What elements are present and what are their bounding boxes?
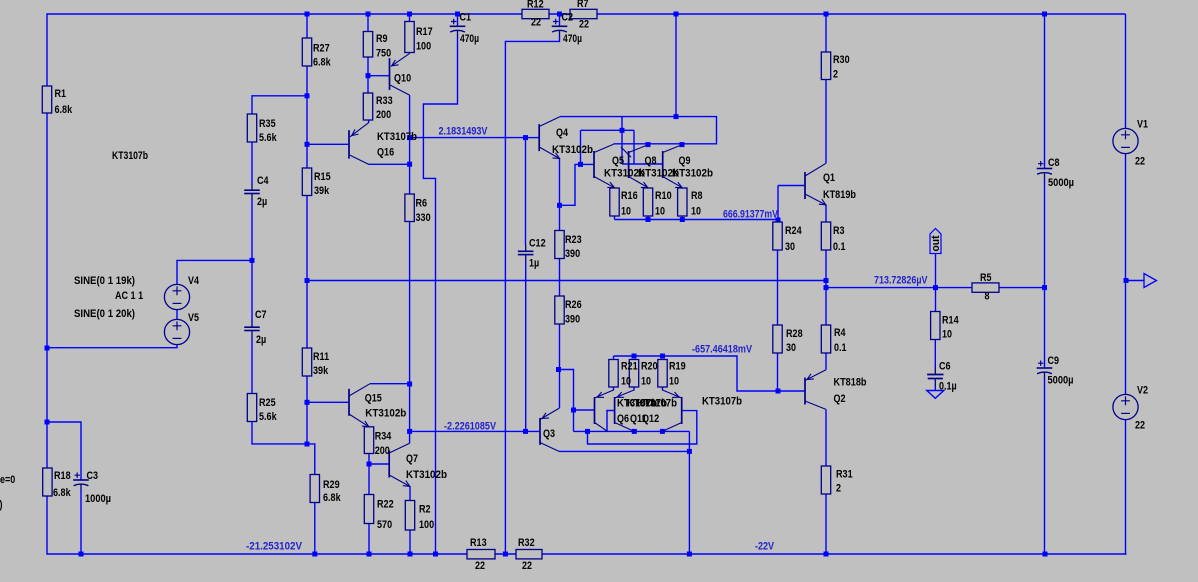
svg-text:Q2: Q2	[834, 393, 846, 405]
transistor Q6 pnp	[595, 390, 614, 431]
resistor R20 10	[629, 360, 638, 388]
capacitor C4 2u	[244, 184, 260, 201]
svg-text:5000µ: 5000µ	[1048, 177, 1074, 189]
wire Q8-Q9 base wire	[622, 163, 662, 165]
node Q3 collector rail	[687, 449, 692, 454]
svg-text:22: 22	[531, 17, 541, 29]
transistor Q3 pnp	[540, 408, 560, 451]
wire Q3 collector rail	[559, 450, 689, 452]
node R19 top	[660, 354, 665, 359]
node V1-V2 mid	[1124, 278, 1129, 283]
wire Q10 collector column	[409, 95, 411, 194]
svg-text:R4: R4	[834, 327, 846, 339]
wire R25 bottom jog to R29	[252, 422, 315, 475]
svg-text:6.8k: 6.8k	[323, 492, 341, 504]
svg-text:KT3107b: KT3107b	[377, 131, 417, 143]
wire node to C7	[251, 260, 253, 321]
node R27-R35	[305, 93, 310, 98]
wire base node to lower rail	[573, 410, 575, 431]
ground	[927, 391, 944, 399]
wire R35 top wire	[252, 96, 307, 114]
resistor R32 22	[516, 550, 542, 559]
capacitor C9 5000u	[1037, 361, 1053, 379]
transistor Q1 npn	[805, 163, 826, 205]
wire Q1 base vertical	[777, 186, 779, 223]
svg-text:C3: C3	[87, 470, 99, 482]
resistor R3 0.1	[821, 222, 830, 250]
wire Q15 collector wire	[370, 383, 410, 385]
node bottom rail / C9	[1043, 552, 1048, 557]
svg-text:Q9: Q9	[679, 155, 691, 167]
transistor Q16 pnp	[349, 123, 369, 165]
svg-text:R11: R11	[313, 351, 329, 363]
node R20 top	[632, 354, 637, 359]
wire cluster to bottom rail	[688, 451, 690, 554]
wire V2 bottom lead	[1125, 420, 1127, 555]
node top rail / R27	[305, 12, 310, 17]
resistor R7 22	[570, 9, 597, 18]
wire R5 to C9 column	[999, 287, 1045, 289]
wire bottom rail right	[542, 553, 1127, 555]
resistor R17 100	[405, 22, 414, 53]
svg-text:KT3102b: KT3102b	[672, 168, 713, 180]
wire R21 top lead	[613, 356, 615, 360]
wire R20 bottom lead	[633, 387, 635, 391]
wire C4 to node	[251, 200, 253, 261]
svg-text:8: 8	[985, 291, 990, 303]
resistor R8 10	[678, 188, 687, 216]
svg-text:KT3107b: KT3107b	[702, 396, 742, 408]
svg-text:30: 30	[785, 241, 795, 253]
wire top supply rail right	[597, 13, 1126, 15]
wire Q2 emitter lead	[825, 353, 827, 370]
transistor Q10 pnp	[390, 53, 411, 95]
node Q12 collector	[660, 429, 665, 434]
voltage source V1 22	[1113, 128, 1138, 153]
svg-text:R22: R22	[377, 499, 394, 511]
svg-text:V4: V4	[188, 275, 200, 287]
svg-text:R6: R6	[416, 198, 428, 210]
node rail tap	[674, 114, 679, 119]
node C12 top	[523, 135, 528, 140]
resistor R10 10	[643, 188, 652, 216]
svg-text:KT819b: KT819b	[823, 189, 856, 201]
wire Q1 emitter to R3	[825, 205, 827, 223]
svg-text:-657.46418mV: -657.46418mV	[692, 344, 753, 356]
svg-text:6.8k: 6.8k	[313, 57, 331, 69]
resistor R14 10	[931, 312, 940, 340]
svg-text:Q7: Q7	[406, 453, 418, 465]
transistor Q11 pnp	[615, 390, 635, 431]
svg-text:Q5: Q5	[612, 155, 624, 167]
svg-text:V1: V1	[1137, 119, 1148, 131]
wire R33 bottom lead	[368, 121, 370, 123]
node Q15 base	[305, 400, 310, 405]
node top rail / C8	[1042, 12, 1047, 17]
svg-text:Q1: Q1	[823, 172, 835, 184]
wire C3 branch	[47, 422, 81, 480]
svg-text:0.1: 0.1	[833, 241, 846, 253]
svg-text:R8: R8	[691, 190, 703, 202]
node top rail / C1	[455, 12, 460, 17]
wire R8 bottom lead	[681, 216, 683, 220]
svg-text:22: 22	[475, 560, 485, 572]
wire C1 top lead	[457, 14, 459, 26]
wire C8 to output node	[1044, 179, 1046, 288]
svg-text:R13: R13	[470, 537, 487, 549]
svg-text:R23: R23	[565, 234, 582, 246]
wire C8 top lead	[1044, 14, 1046, 168]
transistor Q15 npn	[349, 384, 370, 427]
node Q5 base stub	[578, 162, 583, 167]
node Q16 base	[305, 142, 310, 147]
svg-text:1µ: 1µ	[529, 258, 539, 270]
wire Q4 base wire	[526, 137, 540, 139]
resistor R23 390	[555, 231, 564, 259]
svg-text:Q15: Q15	[365, 393, 382, 405]
wire V5 bottom to left column	[47, 344, 177, 348]
svg-text:R10: R10	[655, 190, 672, 202]
svg-text:10: 10	[655, 206, 665, 218]
transistor Q9 npn	[663, 145, 683, 188]
svg-text:39k: 39k	[314, 185, 330, 197]
svg-text:39k: 39k	[313, 365, 329, 377]
node bottom rail / cluster	[687, 552, 692, 557]
svg-text:6.8k: 6.8k	[55, 104, 73, 116]
svg-text:R14: R14	[942, 315, 959, 327]
svg-text:R2: R2	[419, 504, 431, 516]
resistor R34 200	[364, 427, 373, 454]
wire Q12 base loop	[588, 411, 697, 444]
wire left column R18 to bottom rail	[46, 496, 48, 555]
wire R23 top lead	[559, 205, 561, 230]
svg-text:200: 200	[376, 109, 391, 121]
resistor R16 10	[610, 188, 619, 216]
wire R3 to output rail	[825, 250, 827, 281]
wire Q3 emitter vertical	[559, 370, 561, 409]
wire left column R1 upper lead	[46, 13, 48, 86]
voltage source V2 22	[1113, 394, 1138, 419]
resistor R15 39k	[302, 168, 311, 196]
node Q10 base	[366, 73, 371, 78]
node C4-V4 node	[250, 258, 255, 263]
resistor R4 0.1	[821, 325, 830, 353]
wire R16 bottom lead	[614, 216, 616, 220]
node C3 tap	[45, 420, 50, 425]
capacitor C1 470u	[450, 19, 466, 37]
wire V4-V5 link	[176, 310, 178, 321]
node C12 bottom	[523, 429, 528, 434]
svg-text:2: 2	[836, 483, 841, 495]
node bottom rail / R22	[367, 552, 372, 557]
wire output jog	[825, 281, 827, 288]
svg-text:R3: R3	[833, 225, 845, 237]
wire R9 top lead	[367, 14, 369, 32]
wire C7 to R25	[251, 337, 253, 394]
svg-text:V2: V2	[1137, 385, 1148, 397]
svg-text:5.6k: 5.6k	[259, 132, 277, 144]
wire top supply rail mid	[549, 13, 570, 15]
svg-text:R34: R34	[375, 431, 392, 443]
svg-text:C4: C4	[257, 175, 269, 187]
node V5 return	[45, 346, 50, 351]
node bottom rail / R2	[408, 552, 413, 557]
node R34/Q7 base	[367, 462, 372, 467]
svg-text:R28: R28	[786, 328, 803, 340]
svg-text:-22V: -22V	[755, 541, 775, 553]
svg-text:R18: R18	[54, 470, 71, 482]
node Q16 collector	[407, 162, 412, 167]
svg-text:R5: R5	[980, 272, 992, 284]
svg-text:R20: R20	[641, 361, 658, 373]
svg-text:100: 100	[416, 41, 431, 53]
capacitor C12 1u	[518, 245, 534, 261]
wire Q10 base wire	[368, 75, 390, 77]
svg-text:AC 1 1: AC 1 1	[115, 290, 143, 302]
wire V1 top lead	[1125, 14, 1127, 129]
node out flag tap	[933, 285, 938, 290]
wire R29 bottom lead	[314, 503, 316, 555]
transistor Q7 npn	[389, 443, 410, 486]
wire Q3 emitter node	[559, 370, 574, 411]
svg-text:570: 570	[377, 519, 392, 531]
node Q11 collector	[632, 429, 637, 434]
svg-text:R16: R16	[621, 190, 638, 202]
svg-text:R19: R19	[669, 361, 686, 373]
svg-text:330: 330	[416, 212, 431, 224]
svg-text:e=0: e=0	[0, 474, 15, 486]
svg-text:R25: R25	[259, 397, 276, 409]
port flag out	[930, 229, 941, 254]
wire Q11 base stub	[607, 411, 615, 432]
svg-text:10: 10	[942, 329, 952, 341]
svg-text:C6: C6	[939, 361, 951, 373]
wire C1 bottom zigzag	[423, 37, 457, 555]
svg-text:2.1831493V: 2.1831493V	[439, 126, 489, 138]
wire bias column R11 to jog	[306, 376, 308, 444]
resistor R27 6.8k	[302, 38, 311, 66]
wire R24 to R28 link	[777, 250, 779, 325]
transistor Q12 pnp	[662, 390, 681, 431]
wire Q1 base wire	[778, 185, 805, 187]
svg-text:V5: V5	[188, 312, 199, 324]
resistor R2 100	[405, 501, 414, 531]
transistor Q2 pnp	[805, 370, 826, 410]
resistor R30 2	[821, 52, 830, 80]
wire output node to C9	[1044, 288, 1046, 368]
svg-text:KT3102b: KT3102b	[365, 408, 406, 420]
svg-text:470µ: 470µ	[563, 33, 582, 45]
svg-text:C1: C1	[460, 12, 472, 24]
node Q8 collector	[646, 142, 651, 147]
wire R6 to Q7 collector column	[409, 222, 411, 444]
resistor R24 30	[773, 222, 782, 250]
wire cluster base link H3	[581, 129, 635, 131]
wire C9 bottom lead	[1044, 378, 1046, 554]
wire bottom rail left	[47, 553, 467, 555]
wire R14 to C6	[934, 340, 936, 369]
resistor R26 390	[555, 296, 564, 324]
svg-text:KT3102b: KT3102b	[406, 469, 447, 481]
wire Q5 base stub	[580, 130, 582, 164]
svg-text:22: 22	[522, 560, 532, 572]
wire V1 to V2 link	[1125, 154, 1127, 395]
wire C2 top lead	[559, 14, 561, 26]
wire R26 bottom lead	[559, 324, 561, 370]
svg-text:1000µ: 1000µ	[85, 493, 111, 505]
svg-text:R27: R27	[313, 43, 330, 55]
wire Q6 base wire	[574, 409, 595, 411]
resistor R29 6.8k	[310, 475, 319, 503]
svg-text:2µ: 2µ	[257, 196, 267, 208]
resistor R1 6.8k	[42, 86, 51, 113]
wire Q15 base wire	[307, 401, 349, 403]
node top rail / C2	[557, 12, 562, 17]
svg-text:10: 10	[621, 376, 631, 388]
node top rail / R9	[366, 12, 371, 17]
resistor R21 10	[609, 360, 618, 388]
svg-text:R31: R31	[836, 469, 853, 481]
wire Q4 emitter to R23 node	[559, 159, 561, 206]
wire C2 bottom zigzag	[505, 37, 559, 555]
wire R30 top lead	[825, 14, 827, 52]
wire R2 bottom lead	[409, 530, 411, 554]
svg-text:-21.253102V: -21.253102V	[246, 541, 303, 553]
svg-text:Q10: Q10	[394, 73, 411, 85]
wire R22 bottom lead	[368, 524, 370, 555]
svg-text:R33: R33	[376, 95, 393, 107]
wire V4 top to C4 node	[177, 260, 252, 285]
node Q6 base node	[571, 408, 576, 413]
svg-text:750: 750	[376, 48, 391, 60]
wire top supply rail left	[47, 13, 522, 15]
node base rail/Q12 loop	[585, 429, 590, 434]
svg-text:470µ: 470µ	[460, 33, 479, 45]
wire R35 to C4	[251, 142, 253, 184]
wire net -2.226V wire	[410, 430, 540, 432]
svg-text:22: 22	[1135, 156, 1145, 168]
wire feedback node wire 2.18V	[410, 137, 526, 139]
capacitor C2 470u	[552, 19, 568, 37]
wire Q16 base wire	[307, 143, 349, 145]
capacitor C6 0.1u	[927, 368, 943, 387]
wire Q4 collector rail	[560, 117, 717, 144]
node bottom rail / R29	[312, 552, 317, 557]
wire R10 bottom lead	[647, 216, 649, 220]
node Q1 base/R24	[776, 218, 781, 223]
svg-text:713.72826µV: 713.72826µV	[874, 275, 928, 287]
wire lower base rail drop	[688, 431, 690, 451]
wire bias column R27-R15	[306, 66, 308, 168]
svg-text:KT3107b: KT3107b	[112, 150, 148, 162]
svg-text:0.1: 0.1	[834, 342, 847, 354]
svg-text:5.6k: 5.6k	[259, 411, 277, 423]
node bottom rail / C2 path	[503, 552, 508, 557]
svg-text:22: 22	[1135, 420, 1145, 432]
wire R24 top lead	[777, 220, 779, 223]
wire Q16 collector wire	[369, 163, 410, 165]
svg-text:22: 22	[579, 19, 589, 31]
node R25-R29 jog	[305, 442, 310, 447]
svg-text:SINE(0 1 20k): SINE(0 1 20k)	[74, 308, 135, 320]
svg-text:2µ: 2µ	[256, 334, 266, 346]
node R3/output rail	[824, 278, 829, 283]
node bottom rail / C3	[79, 552, 84, 557]
svg-text:Q12: Q12	[642, 413, 659, 425]
svg-text:KT3107b: KT3107b	[637, 398, 677, 410]
wire R9 to base node	[367, 57, 369, 93]
wire R23-R26 link	[559, 259, 561, 297]
svg-text:C9: C9	[1048, 355, 1060, 367]
resistor R6 330	[405, 194, 414, 222]
resistor R31 2	[821, 466, 830, 494]
svg-text:Q4: Q4	[556, 127, 569, 139]
output arrow marker	[1144, 274, 1157, 288]
node top rail / tap	[674, 12, 679, 17]
svg-text:-2.2261085V: -2.2261085V	[444, 421, 497, 433]
svg-text:R1: R1	[55, 88, 67, 100]
node Q15-Q7 collectors	[407, 382, 412, 387]
wire left column R1 to V5 tap	[46, 113, 48, 348]
transistor Q5 npn	[594, 144, 615, 188]
svg-text:R9: R9	[376, 33, 388, 45]
node Q2 base/R28	[776, 389, 781, 394]
resistor R19 10	[658, 360, 667, 388]
wire R19 bottom lead	[662, 387, 664, 391]
svg-text:30: 30	[786, 342, 796, 354]
voltage source V4 SINE	[164, 284, 189, 309]
node H3 cross	[620, 128, 625, 133]
wire bias column R27 top lead	[306, 14, 308, 38]
wire mid output rail	[307, 280, 826, 282]
svg-text:C8: C8	[1048, 157, 1060, 169]
svg-text:out: out	[930, 235, 942, 251]
resistor R25 5.6k	[247, 394, 256, 422]
node output rail left	[305, 278, 310, 283]
svg-text:R30: R30	[833, 54, 850, 66]
svg-text:390: 390	[565, 248, 580, 260]
resistor R13 22	[467, 550, 495, 559]
svg-text:5000µ: 5000µ	[1048, 375, 1074, 387]
wire R34 bottom to Q7 base	[369, 454, 389, 465]
wire R31 bottom lead	[825, 494, 827, 554]
node Q4 emitter/R23	[557, 203, 562, 208]
svg-text:KT818b: KT818b	[834, 377, 867, 389]
wire C3 bottom lead	[80, 490, 82, 554]
svg-text:R26: R26	[565, 299, 582, 311]
wire R14 top lead	[935, 288, 937, 312]
wire positive drive net 666mV	[615, 219, 779, 221]
wire Q2 collector to R31	[825, 409, 827, 466]
wire R28 bottom lead	[777, 353, 779, 391]
wire R21 bottom lead	[613, 387, 615, 391]
node Q9 collector	[680, 142, 685, 147]
wire Q7 emitter to R2	[409, 487, 411, 501]
svg-text:R12: R12	[527, 0, 544, 11]
node -2.226V left	[407, 429, 412, 434]
svg-text:R24: R24	[785, 225, 802, 237]
resistor R18 6.8k	[43, 468, 52, 496]
resistor R5 8	[972, 283, 999, 292]
capacitor C8 5000u	[1037, 161, 1053, 179]
svg-text:390: 390	[565, 314, 580, 326]
node bottom rail / C1 path	[433, 552, 438, 557]
svg-text:0.1µ: 0.1µ	[939, 381, 957, 393]
wire lower cluster base rail	[574, 430, 690, 432]
capacitor C7 2u	[244, 321, 260, 338]
wire output net to R5	[826, 287, 972, 289]
svg-text:C2: C2	[562, 12, 574, 24]
